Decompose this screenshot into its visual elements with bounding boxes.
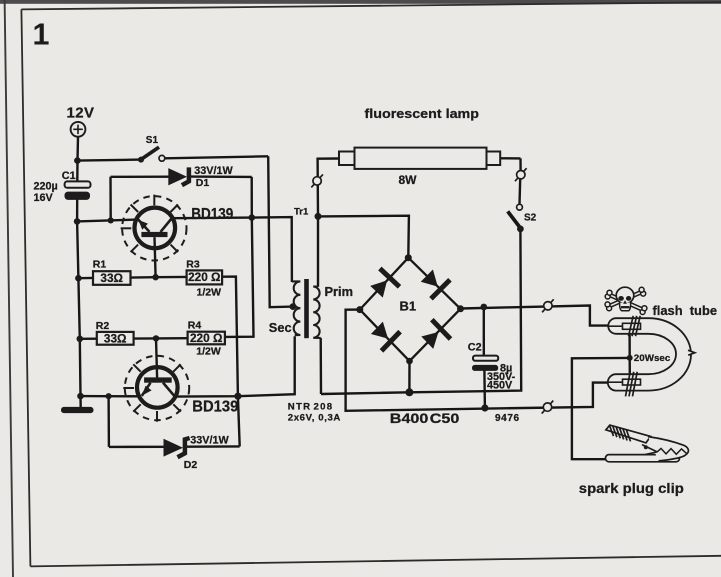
- svg-text:1/2W: 1/2W: [197, 286, 222, 298]
- svg-text:Prim: Prim: [325, 284, 353, 299]
- svg-text:9476: 9476: [495, 413, 520, 424]
- svg-text:C2: C2: [468, 341, 482, 353]
- svg-text:Tr1: Tr1: [294, 207, 309, 218]
- svg-text:spark plug clip: spark plug clip: [579, 480, 684, 496]
- svg-text:BD139: BD139: [191, 206, 233, 223]
- svg-text:1/2W: 1/2W: [196, 346, 221, 358]
- svg-text:D2: D2: [184, 459, 198, 471]
- svg-text:220 Ω: 220 Ω: [188, 270, 220, 284]
- svg-text:2x6V, 0,3A: 2x6V, 0,3A: [288, 412, 341, 423]
- svg-text:33V/1W: 33V/1W: [190, 435, 229, 447]
- svg-text:R3: R3: [186, 258, 200, 270]
- svg-text:B400 C50: B400 C50: [390, 411, 460, 427]
- svg-text:220µ: 220µ: [34, 181, 58, 193]
- svg-text:16V: 16V: [34, 192, 54, 204]
- svg-text:fluorescent lamp: fluorescent lamp: [365, 106, 480, 121]
- svg-text:33V/1W: 33V/1W: [194, 165, 233, 177]
- svg-text:33Ω: 33Ω: [104, 331, 127, 345]
- svg-text:R4: R4: [188, 319, 202, 331]
- svg-text:Sec: Sec: [269, 320, 292, 335]
- svg-text:20Wsec: 20Wsec: [634, 353, 671, 363]
- svg-text:8W: 8W: [399, 173, 418, 187]
- svg-text:D1: D1: [196, 177, 210, 189]
- svg-text:450V: 450V: [487, 379, 513, 391]
- svg-text:C1: C1: [62, 170, 76, 182]
- svg-text:B1: B1: [400, 299, 417, 314]
- svg-text:S2: S2: [524, 213, 537, 224]
- svg-text:R1: R1: [93, 258, 107, 270]
- svg-text:33Ω: 33Ω: [100, 271, 123, 285]
- svg-text:R2: R2: [96, 320, 110, 332]
- svg-text:flash tube: flash tube: [653, 303, 718, 318]
- svg-text:1: 1: [33, 18, 50, 52]
- svg-text:12V: 12V: [67, 104, 95, 121]
- svg-text:220 Ω: 220 Ω: [190, 331, 222, 345]
- svg-text:S1: S1: [146, 135, 159, 146]
- svg-text:NTR 208: NTR 208: [288, 401, 334, 412]
- svg-text:BD139: BD139: [192, 399, 238, 416]
